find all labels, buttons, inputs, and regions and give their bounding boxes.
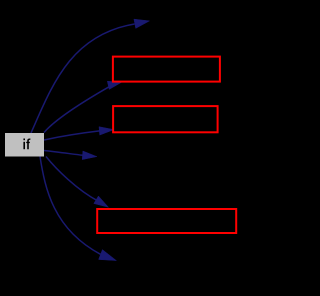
node2 (truncated, red) [113,106,218,132]
edge if->node6 [40,157,116,261]
node3 (truncated, red) [97,209,236,233]
edge if->node3 [44,127,114,140]
node if [5,133,44,157]
edge if->node4 [44,151,97,160]
edge if->node2 [44,81,122,132]
edge if->node1 [31,19,150,133]
node1 (truncated, red) [113,57,220,82]
edge if->node5 [46,157,109,208]
